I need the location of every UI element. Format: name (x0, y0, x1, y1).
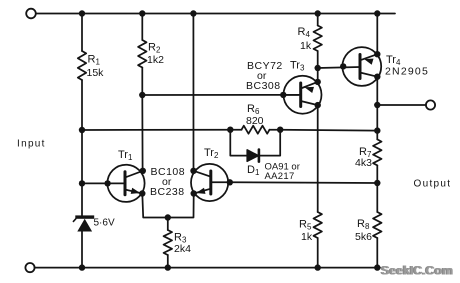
junction Tr1 emitter exit (139, 190, 145, 196)
input terminal (26, 9, 36, 19)
svg-text:820: 820 (246, 115, 264, 127)
svg-text:R5: R5 (299, 219, 312, 232)
svg-text:1k2: 1k2 (147, 54, 164, 66)
svg-text:Tr1: Tr1 (118, 149, 133, 162)
junction bottom rail R3 (165, 264, 171, 270)
svg-text:Input: Input (17, 139, 46, 150)
junction Tr3 base entry (280, 92, 286, 98)
svg-text:2N2905: 2N2905 (385, 66, 429, 78)
junction Tr4 collector (374, 74, 380, 80)
resistor R1 (78, 51, 86, 80)
wire Tr1 base tap to zener (81, 183, 83, 215)
wire Tr1 base lead (82, 182, 124, 184)
wire left branch upper (R1 top lead) (81, 14, 83, 52)
svg-text:SeekIC.Com: SeekIC.Com (382, 264, 454, 278)
wire bottom rail (35, 267, 380, 269)
junction top rail R4 (315, 10, 321, 16)
output terminal (426, 100, 435, 109)
wire Tr4 base node to Tr3 emitter (317, 68, 319, 82)
wire R2 bottom to Tr3 base node (141, 68, 143, 96)
wire R8 leads (376, 183, 378, 212)
wire Tr2 collector branch (192, 14, 194, 171)
junction R7 top (374, 127, 380, 133)
wire R2 top lead (141, 14, 143, 41)
svg-text:1k: 1k (301, 231, 313, 243)
diode D1 (247, 150, 259, 162)
junction R7/R8/Tr2 base (374, 180, 380, 186)
junction Tr2 emitter exit (191, 190, 197, 196)
wire Tr2 base run (230, 181, 377, 184)
wire Tr1 emitter drop (142, 194, 193, 218)
bottom-left terminal (25, 263, 34, 272)
svg-text:4k3: 4k3 (355, 157, 372, 169)
junction top rail Tr4 emitter (374, 10, 380, 16)
svg-text:5k6: 5k6 (355, 231, 372, 243)
resistor R4 (314, 26, 322, 52)
wire Tr3 base run (142, 94, 298, 96)
resistor R5 (314, 212, 322, 238)
svg-text:5·6V: 5·6V (94, 218, 115, 229)
svg-text:R8: R8 (357, 218, 370, 231)
junction top rail R1 (79, 10, 85, 16)
junction Tr1 collector (140, 168, 146, 174)
wire D1 loop (230, 130, 280, 156)
wire top rail (36, 13, 395, 15)
junction R6-D1 left (227, 127, 233, 133)
resistor R6 (242, 126, 270, 134)
transistor Tr1 (107, 165, 144, 202)
wire Tr4 emitter to top rail (376, 14, 378, 55)
junction Tr2 collector (190, 168, 196, 174)
svg-text:AA217: AA217 (265, 171, 295, 182)
junction node A (R1 bottom / feedback) (79, 127, 85, 133)
zener diode 5.6V (73, 215, 94, 231)
junction top rail Tr2 collector (190, 10, 196, 16)
junction Tr1 base tap (79, 180, 85, 186)
junction Tr1 base entry (104, 180, 110, 186)
wire R3 leads (167, 218, 169, 231)
wire node A to Tr1 base tap (81, 130, 83, 183)
svg-text:Output: Output (414, 179, 452, 190)
resistor R3 (164, 230, 172, 255)
wire feedback run y130 left (82, 129, 230, 131)
wire R6 right lead (270, 129, 281, 131)
transistor Tr4 (342, 47, 381, 86)
resistor R2 (138, 40, 146, 68)
junction Tr2 base entry (227, 179, 233, 185)
svg-text:R1: R1 (88, 54, 101, 67)
wire Tr4 base run (318, 67, 360, 68)
junction R2 / Tr3 base (139, 92, 145, 98)
svg-text:Tr2: Tr2 (204, 147, 219, 160)
wire node to Tr1 collector (141, 95, 143, 171)
wire Tr4 collector down to output node (376, 77, 378, 131)
junction Tr4 base entry (340, 63, 346, 69)
wire R4 bottom to Tr4 base node (317, 51, 319, 68)
junction emitter bus / R3 (165, 214, 171, 220)
junction bottom rail R8 (374, 264, 380, 270)
junction R6-D1 right (277, 127, 283, 133)
svg-text:1k: 1k (300, 40, 312, 52)
junction bottom rail R5 (315, 264, 321, 270)
wire R5 bottom lead (317, 238, 319, 268)
wire R7 leads (376, 131, 378, 140)
resistor R8 (373, 212, 381, 238)
svg-text:2k4: 2k4 (174, 243, 191, 255)
svg-text:R2: R2 (148, 42, 161, 55)
junction top rail R2 (139, 10, 145, 16)
junction Tr3 collector (315, 102, 321, 108)
junction Tr4 emitter (374, 51, 380, 57)
transistor Tr2 (191, 164, 230, 201)
svg-text:BC238: BC238 (150, 186, 185, 198)
junction Tr3 emitter (315, 79, 321, 85)
wire feedback run y130 right (280, 129, 377, 132)
transistor Tr3 (283, 76, 321, 114)
resistor R7 (373, 139, 381, 165)
svg-text:Tr3: Tr3 (290, 60, 305, 73)
wire R4 top lead (317, 14, 319, 26)
svg-text:R4: R4 (298, 26, 311, 39)
junction bottom rail zener (79, 264, 85, 270)
wire zener to bottom rail (81, 232, 83, 268)
wire Tr3 collector down to R5 (317, 105, 319, 212)
wire R1 bottom to node A (81, 80, 83, 130)
svg-text:15k: 15k (87, 67, 105, 79)
svg-text:D1: D1 (247, 164, 260, 177)
wire R6 left lead (230, 129, 241, 131)
svg-text:BC308: BC308 (246, 80, 281, 92)
junction Tr4 base node (315, 65, 321, 71)
wire output tap (377, 104, 426, 106)
junction output tap (374, 102, 380, 108)
